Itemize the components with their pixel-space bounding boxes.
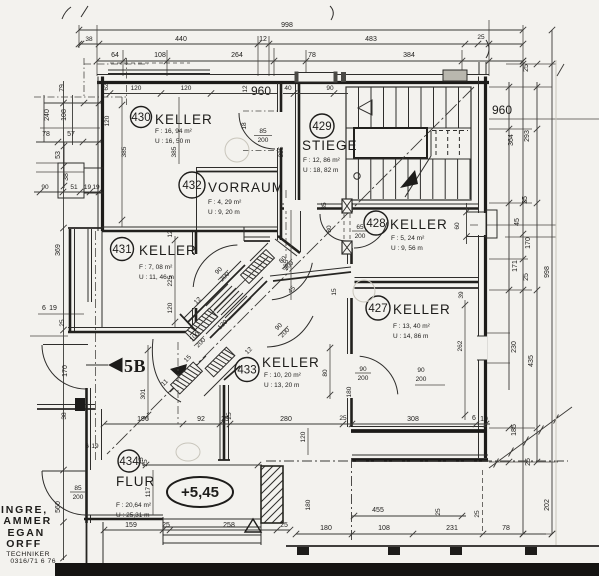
svg-text:120: 120 <box>181 85 192 92</box>
interior wall x196 room431 right upper <box>192 231 194 254</box>
svg-text:79: 79 <box>59 84 66 92</box>
interior wall y230 thin <box>102 226 277 228</box>
wall x277 diagonal bend <box>278 236 300 253</box>
interior rotated dim 301 FLUR <box>147 345 149 420</box>
svg-text:25: 25 <box>522 196 529 204</box>
svg-text:293: 293 <box>524 130 531 142</box>
svg-text:25: 25 <box>138 457 145 465</box>
svg-text:200: 200 <box>355 233 366 240</box>
corridor wall SW to x224 <box>224 366 240 380</box>
right dimension extension lines <box>489 86 552 88</box>
corridor SE wall lines <box>206 277 263 334</box>
svg-text:435: 435 <box>528 355 535 367</box>
interior wall y330 room431 bottom <box>68 327 196 329</box>
corridor wall NW to y331 <box>180 314 196 331</box>
svg-text:KELLER: KELLER <box>139 243 197 258</box>
left wall bottom extension <box>86 522 88 563</box>
svg-text:19: 19 <box>49 305 57 312</box>
svg-text:432: 432 <box>182 180 201 192</box>
corridor connecting wall NE-top <box>250 243 268 261</box>
svg-text:998: 998 <box>281 22 293 29</box>
svg-text:25: 25 <box>474 510 481 518</box>
svg-text:301: 301 <box>140 388 147 399</box>
svg-text:TECHNIKER: TECHNIKER <box>6 551 50 558</box>
svg-text:6: 6 <box>85 443 89 450</box>
svg-text:120: 120 <box>167 302 174 313</box>
interior wall x277 thin <box>277 83 279 240</box>
marker 5B triangle <box>86 364 108 366</box>
svg-text:264: 264 <box>231 52 243 59</box>
stair small circle mark <box>354 173 360 179</box>
door arc corridor NE into VORRAUM east <box>272 263 312 300</box>
dimension row 455 25 <box>352 515 466 517</box>
svg-text:90: 90 <box>326 85 334 92</box>
svg-text:92: 92 <box>197 416 205 423</box>
svg-text:120: 120 <box>131 85 142 92</box>
svg-text:430: 430 <box>131 112 150 124</box>
svg-text:258: 258 <box>223 522 235 529</box>
door arc room 430 to VORRAUM <box>239 113 275 149</box>
svg-text:440: 440 <box>175 36 187 43</box>
svg-text:57: 57 <box>67 131 75 138</box>
svg-text:F : 20,64 m²: F : 20,64 m² <box>116 502 152 509</box>
svg-text:120: 120 <box>104 115 111 126</box>
svg-text:384: 384 <box>403 52 415 59</box>
door opening x351 to room 427 <box>346 354 355 398</box>
svg-text:171: 171 <box>512 260 519 272</box>
svg-text:262: 262 <box>457 340 464 351</box>
interior wall y205 stair-room bottom thick <box>281 207 478 210</box>
svg-text:F : 5, 24 m²: F : 5, 24 m² <box>391 235 425 242</box>
svg-text:231: 231 <box>446 525 458 532</box>
dimension row 440/12/483 line <box>79 43 523 45</box>
svg-text:108: 108 <box>61 109 68 121</box>
room 431 KELLER label circle <box>111 238 134 261</box>
corridor treads middle <box>206 284 228 306</box>
interior wall divider 428/427 <box>351 277 478 279</box>
svg-text:F : 13, 40 m²: F : 13, 40 m² <box>393 323 431 330</box>
svg-text:108: 108 <box>154 52 166 59</box>
svg-text:25: 25 <box>280 522 288 529</box>
corridor connecting wall NE-right <box>273 272 351 281</box>
exterior wall left below door thin <box>90 388 92 470</box>
svg-text:19: 19 <box>91 443 99 450</box>
exterior wall left below door thick <box>85 388 88 523</box>
svg-text:170: 170 <box>525 237 532 249</box>
black pillar at left wall <box>75 398 85 411</box>
svg-text:45: 45 <box>514 218 521 226</box>
left lightwell box upper <box>58 163 84 198</box>
vertical dash-dot x351 <box>351 458 353 540</box>
right extension line y64 <box>506 63 556 65</box>
interior rotated dim 117 FLUR <box>152 470 154 515</box>
right dimension vertical line 998 <box>551 30 553 534</box>
svg-text:19: 19 <box>480 416 488 423</box>
section line diagonal dash-dot <box>107 87 474 454</box>
room 433 KELLER label circle <box>235 358 259 382</box>
svg-text:117: 117 <box>145 486 152 497</box>
svg-text:90: 90 <box>359 366 367 373</box>
corridor hatched wall block SW-B3 <box>205 347 235 377</box>
svg-text:240: 240 <box>44 109 51 121</box>
svg-text:35: 35 <box>321 202 328 210</box>
scan mark parenthesis top right <box>486 40 489 58</box>
svg-text:85: 85 <box>74 485 82 492</box>
interior wall x300 thin extension <box>300 209 302 253</box>
warning triangle <box>245 519 261 532</box>
bottom dimension row y534 <box>296 533 546 535</box>
svg-text:78: 78 <box>308 52 316 59</box>
corridor hatched wall block NE <box>241 250 275 284</box>
door arc corridor SW into FLUR <box>152 339 181 402</box>
right dimension vertical line outer <box>536 82 538 462</box>
bottom wall of FLUR <box>84 518 163 521</box>
svg-text:483: 483 <box>365 36 377 43</box>
svg-text:62: 62 <box>103 83 110 91</box>
top extension lines <box>78 25 80 48</box>
svg-text:12: 12 <box>259 36 267 43</box>
svg-text:80: 80 <box>326 225 333 233</box>
svg-text:385: 385 <box>278 146 285 157</box>
interior wall x196 room431 right lower <box>192 308 194 332</box>
left wall extension line y336 <box>30 335 68 337</box>
room 430 KELLER label circle <box>131 107 152 128</box>
svg-text:U : 13, 20 m: U : 13, 20 m <box>264 382 299 389</box>
window room 427 right wall <box>476 336 487 360</box>
svg-text:230: 230 <box>511 341 518 353</box>
room 429 STIEGE label circle <box>310 114 334 138</box>
dashed extension x482 <box>482 470 484 532</box>
svg-text:25: 25 <box>523 273 530 281</box>
left horizontal extension lines <box>34 96 126 98</box>
svg-text:998: 998 <box>544 266 551 278</box>
svg-text:+5,45: +5,45 <box>181 484 219 501</box>
svg-text:25: 25 <box>477 34 485 41</box>
door arc room 428 <box>354 222 387 248</box>
svg-text:15: 15 <box>331 288 338 296</box>
corridor lower SW wall lines <box>170 356 206 392</box>
svg-text:120: 120 <box>300 431 307 442</box>
svg-text:170: 170 <box>62 365 69 377</box>
svg-text:F : 4, 29 m²: F : 4, 29 m² <box>208 199 242 206</box>
interior dim line x330 with 80 <box>329 344 331 399</box>
svg-text:25: 25 <box>523 64 530 72</box>
scan mark parenthesis top center <box>330 6 333 20</box>
interior wall x296 thin <box>295 84 297 204</box>
svg-text:80: 80 <box>322 369 329 377</box>
stair up arrow open triangle <box>358 100 372 115</box>
svg-text:KELLER: KELLER <box>155 112 213 127</box>
svg-text:38: 38 <box>61 412 68 420</box>
exterior wall bottom of room 427 thin <box>351 426 487 428</box>
door arc FLUR bottom-left exterior <box>42 470 86 472</box>
svg-text:64: 64 <box>111 52 119 59</box>
interior wall y171 VORRAUM top <box>196 167 277 169</box>
svg-text:F : 10, 20 m²: F : 10, 20 m² <box>264 372 302 379</box>
svg-text:225: 225 <box>167 275 174 286</box>
svg-text:200: 200 <box>358 375 369 382</box>
exterior wall top thick line <box>97 81 489 84</box>
interior rotated dim 385 room430 <box>121 97 123 227</box>
interior dim 120 120 top <box>104 93 277 95</box>
room 427 KELLER label circle <box>366 296 390 320</box>
exterior bottom-right wall thin <box>352 454 488 456</box>
door 428 dashed leaf lines <box>343 214 345 240</box>
exterior wall left inner pair <box>87 229 89 302</box>
svg-text:428: 428 <box>366 218 385 230</box>
section arrow triangle on diagonal <box>170 364 187 381</box>
svg-text:STIEGE: STIEGE <box>302 138 358 153</box>
svg-text:VORRAUM: VORRAUM <box>208 180 284 195</box>
exterior wall left upper thin <box>97 77 99 232</box>
dimension row 64/108/264/78/384 line <box>97 60 523 62</box>
svg-text:960: 960 <box>251 84 271 98</box>
svg-text:18: 18 <box>241 122 248 130</box>
door 170 left wall arc <box>42 345 86 389</box>
svg-text:159: 159 <box>125 522 137 529</box>
chimney box on top wall right <box>443 70 467 81</box>
svg-text:ORFF: ORFF <box>6 538 42 550</box>
stair walking line with arrow <box>405 156 431 197</box>
svg-text:196: 196 <box>137 416 149 423</box>
diagonal dimension bottom right <box>489 407 572 468</box>
svg-text:51: 51 <box>70 184 78 191</box>
svg-text:0316/71 6 76: 0316/71 6 76 <box>10 558 56 565</box>
svg-text:78: 78 <box>502 525 510 532</box>
svg-text:202: 202 <box>544 499 551 511</box>
exterior wall left inner face below door <box>101 409 103 460</box>
bottom interior dimension row y424 <box>104 423 490 425</box>
room 428 KELLER label circle <box>364 211 388 235</box>
dash-dot axis x286 <box>285 190 287 258</box>
svg-text:U : 16, 50 m: U : 16, 50 m <box>155 138 190 145</box>
svg-text:25: 25 <box>59 319 66 327</box>
exterior bottom-right wall thick <box>352 458 488 462</box>
svg-text:19: 19 <box>92 184 100 191</box>
interior wall x224 FLUR east <box>219 385 221 460</box>
svg-text:200: 200 <box>258 137 269 144</box>
door arc stair landing 65/200 <box>320 214 347 241</box>
svg-text:90: 90 <box>417 367 425 374</box>
room 432 VORRAUM label circle <box>179 172 205 198</box>
exterior wall left lower outer thin <box>74 229 76 333</box>
right extension line y237 <box>505 236 556 238</box>
bottom black scan bar <box>55 563 599 576</box>
room 434 FLUR label circle <box>118 450 140 472</box>
svg-text:364: 364 <box>508 134 515 146</box>
right wall top extension lines <box>478 62 480 74</box>
svg-text:F : 7, 08 m²: F : 7, 08 m² <box>139 264 173 271</box>
left dimension vertical line with 369 <box>63 81 65 560</box>
door 428 jamb block lower <box>342 241 352 254</box>
right extension line y225 <box>470 224 556 226</box>
svg-text:200: 200 <box>73 494 84 501</box>
faint stamp circle 1 <box>225 138 249 162</box>
svg-text:960: 960 <box>492 103 512 117</box>
door arc corridor NW big <box>193 245 237 287</box>
corridor lower SE wall lines <box>204 362 238 396</box>
interior wall x351 thin <box>347 203 349 427</box>
svg-text:431: 431 <box>112 244 131 256</box>
scan slash marks top-left <box>62 7 71 19</box>
interior wall x196 VORRAUM left <box>196 167 198 230</box>
door opening x351 corridor <box>346 264 355 298</box>
faint stamp circle 3 <box>176 443 200 461</box>
svg-text:KELLER: KELLER <box>262 355 320 370</box>
door opening in wall y205 <box>284 200 317 211</box>
stair upper flight treads <box>358 87 360 128</box>
svg-text:FLUR: FLUR <box>116 474 155 489</box>
svg-text:U : 9, 20 m: U : 9, 20 m <box>208 209 240 216</box>
svg-text:427: 427 <box>368 303 387 315</box>
svg-text:85: 85 <box>259 128 267 135</box>
door arc corridor SE into room 433 <box>267 316 313 347</box>
exterior stair treads bottom left <box>162 517 164 545</box>
left wall dash-dot axis <box>95 231 97 460</box>
svg-text:38: 38 <box>85 36 93 43</box>
svg-text:433: 433 <box>237 365 256 377</box>
svg-text:200: 200 <box>416 376 427 383</box>
stair hidden treads dashed <box>435 130 437 155</box>
interior wall y230 thick <box>102 230 277 233</box>
svg-text:65: 65 <box>356 224 364 231</box>
stair outline box <box>346 87 471 200</box>
faint scan fold line right <box>555 60 557 545</box>
svg-text:40: 40 <box>284 85 292 92</box>
exterior wall left lower outer thick <box>69 229 72 333</box>
exterior wall bottom of room 427 thick <box>351 429 487 433</box>
dimension row 998 line <box>79 29 523 31</box>
svg-text:6: 6 <box>42 305 46 312</box>
interior wall y205 stair-room bottom thin <box>281 203 478 205</box>
right extension line y119 <box>489 118 599 120</box>
svg-text:U : 9, 56 m: U : 9, 56 m <box>391 245 423 252</box>
exterior wall left upper thick <box>101 77 104 232</box>
svg-text:U : 25,31 m: U : 25,31 m <box>116 512 150 519</box>
door 428 jamb block upper <box>342 199 352 213</box>
svg-text:53: 53 <box>55 151 62 159</box>
svg-text:U : 14, 86 m: U : 14, 86 m <box>393 333 428 340</box>
small slash right top <box>557 64 564 76</box>
right dimension vertical line mid <box>522 61 524 534</box>
left dash-dot verticals <box>83 58 85 97</box>
corridor NW wall lines <box>184 261 241 318</box>
bottom retaining wall <box>286 545 599 547</box>
svg-text:180: 180 <box>305 499 312 510</box>
svg-text:AMMER: AMMER <box>3 515 52 527</box>
dash-dot line y461 <box>266 460 568 462</box>
svg-text:180: 180 <box>346 386 353 397</box>
svg-text:U : 18, 82 m: U : 18, 82 m <box>303 167 338 174</box>
svg-text:5B: 5B <box>124 356 146 376</box>
interior rotated dim 385 VORRAUM <box>178 97 180 164</box>
svg-text:25: 25 <box>162 522 170 529</box>
svg-text:25: 25 <box>435 508 442 516</box>
stair lower flight treads <box>345 159 347 199</box>
left wall segment y404-409 <box>37 404 95 406</box>
svg-text:185: 185 <box>511 424 518 436</box>
level marker +5,45 ellipse <box>167 477 233 507</box>
stair landing <box>354 128 427 158</box>
door arc room 427 <box>360 356 398 394</box>
svg-text:60: 60 <box>454 222 461 230</box>
svg-text:39: 39 <box>458 291 465 299</box>
svg-text:25: 25 <box>525 458 532 466</box>
svg-text:25: 25 <box>339 415 347 422</box>
corridor axis dimension line <box>190 257 268 335</box>
svg-text:78: 78 <box>42 131 50 138</box>
svg-text:365: 365 <box>283 259 290 270</box>
exterior wall left inner thin <box>101 231 103 327</box>
svg-text:19: 19 <box>84 184 92 191</box>
svg-text:180: 180 <box>320 525 332 532</box>
dashed box top-left wall <box>110 62 190 64</box>
svg-text:280: 280 <box>280 416 292 423</box>
svg-text:6: 6 <box>472 415 476 422</box>
svg-text:385: 385 <box>171 146 178 157</box>
exterior wall top thin line <box>97 74 489 76</box>
FLUR bottom dimension line y465 <box>143 464 262 466</box>
exterior wall right thin <box>478 77 480 459</box>
svg-text:25: 25 <box>221 416 229 423</box>
svg-text:308: 308 <box>407 416 419 423</box>
interior rotated dim 262 room 427 <box>464 300 466 420</box>
door opening in wall x277 <box>275 112 283 148</box>
corridor hatched wall block mid <box>185 308 218 341</box>
window lines on top wall left <box>108 69 210 71</box>
svg-text:KELLER: KELLER <box>393 302 451 317</box>
svg-text:429: 429 <box>312 121 331 133</box>
bottom dimension row y530 left <box>104 529 290 531</box>
svg-text:F : 12, 86 m²: F : 12, 86 m² <box>303 157 341 164</box>
svg-text:369: 369 <box>55 244 62 256</box>
svg-text:455: 455 <box>372 507 384 514</box>
svg-text:434: 434 <box>119 456 139 468</box>
window reveal room 428 right wall <box>466 211 486 213</box>
left dimension horizontal y103 <box>44 102 103 104</box>
svg-text:12: 12 <box>167 230 174 238</box>
svg-text:12: 12 <box>242 85 249 93</box>
faint stamp circle 2 <box>353 280 375 302</box>
door 170 left wall leaf <box>43 344 88 346</box>
window box on top wall center with jambs <box>298 73 336 83</box>
svg-text:F : 16, 94 m²: F : 16, 94 m² <box>155 128 193 135</box>
interior wall x277 thick <box>280 83 283 240</box>
interior wall x296 thick <box>298 84 301 204</box>
exterior wall left jog <box>68 227 103 229</box>
corridor hatched wall block SW-B4 <box>171 362 203 394</box>
right dimension vertical line inner <box>508 82 510 390</box>
svg-text:385: 385 <box>121 146 128 157</box>
svg-text:KELLER: KELLER <box>390 217 448 232</box>
door opening x351 to room 428 <box>346 212 355 248</box>
svg-text:108: 108 <box>378 525 390 532</box>
exterior wall right thick <box>484 77 487 459</box>
interior wall x351 thick <box>350 203 353 427</box>
